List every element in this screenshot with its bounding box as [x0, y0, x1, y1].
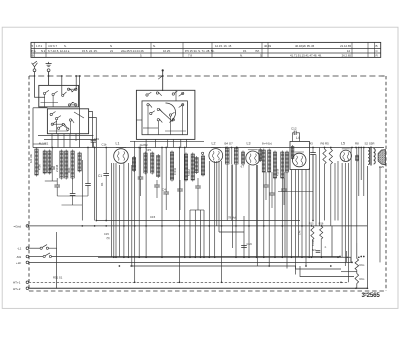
svg-text:HT+2: HT+2 — [13, 287, 21, 291]
wire C19 branch — [219, 231, 244, 233]
wire earth down — [48, 72, 50, 86]
wire speaker drop — [366, 166, 368, 288]
svg-text:B: B — [376, 44, 378, 48]
A2 slant tick — [158, 75, 163, 79]
svg-text:L5: L5 — [341, 141, 345, 145]
svg-text:R8: R8 — [355, 141, 359, 145]
bus step 1 — [296, 266, 342, 269]
wire Rm2 down — [356, 284, 358, 289]
capacitor C18 — [91, 140, 97, 142]
resistor R20 — [268, 149, 271, 174]
svg-text:21016: 21016 — [55, 164, 59, 172]
capacitor C16 — [281, 189, 287, 191]
wire S1b internal 5 — [74, 112, 84, 118]
switch contact S1a — [72, 88, 77, 92]
bus wire y264 — [130, 265, 296, 267]
wire antenna down — [35, 72, 46, 98]
wire S1a internal 3 — [44, 95, 46, 107]
switch contact S2 — [169, 119, 174, 123]
capacitor C10 — [177, 189, 183, 191]
capacitor C9 — [163, 192, 169, 194]
resistor Rm1 — [355, 259, 359, 271]
svg-text:R1: R1 — [100, 182, 104, 186]
wire cluster A bottom link 1 — [45, 180, 57, 182]
resistor R18b — [259, 148, 262, 162]
wire -L1 — [29, 247, 40, 249]
wire S1b internal 2 — [56, 120, 58, 134]
earth terminal — [47, 69, 50, 72]
switch box S2 outer — [136, 90, 195, 139]
wire R16 drop — [320, 239, 322, 257]
wire left drop — [32, 108, 34, 148]
wire C11 leads — [197, 178, 199, 210]
svg-text:R16: R16 — [319, 221, 324, 225]
wire C3 leads — [56, 178, 58, 196]
switch contact S2 — [157, 108, 162, 112]
wire Rm link — [356, 270, 358, 274]
svg-text:C15: C15 — [104, 232, 109, 236]
switch contact S2 — [179, 104, 184, 108]
coil S3 — [35, 148, 38, 177]
resistor R6 — [323, 149, 326, 164]
coil S5 — [157, 154, 160, 178]
svg-text:N 2: N 2 — [41, 49, 46, 53]
terminal HT+1 — [26, 281, 29, 284]
svg-text:16.25.: 16.25. — [163, 49, 171, 53]
switch contact S1b — [50, 112, 55, 116]
svg-text:6.7: 6.7 — [241, 165, 245, 169]
terminal -M1 — [26, 255, 29, 258]
capacitor C6 — [85, 184, 91, 186]
terminal -L1 — [26, 247, 29, 250]
switch contact S2 — [157, 119, 162, 123]
wire -L1 to node — [49, 248, 57, 288]
capacitor C2 — [49, 167, 55, 169]
svg-text:6.7-10.5, 12-14 a: 6.7-10.5, 12-14 a — [48, 49, 70, 53]
bus wire HT+1 — [29, 281, 349, 283]
svg-text:4 R 6.7: 4 R 6.7 — [48, 44, 57, 48]
svg-text:L1: L1 — [116, 142, 120, 146]
switch contact S1a — [67, 88, 72, 92]
wire S1b right link — [89, 112, 93, 148]
switch S2 rotor arc — [166, 103, 176, 120]
wire S2 internal 7 — [165, 130, 186, 132]
dashed border frame right — [385, 76, 387, 291]
svg-text:=Grid: =Grid — [14, 225, 22, 229]
bus wire y220 — [96, 220, 300, 222]
title table row line 1 — [31, 48, 381, 50]
switch contact S1a — [72, 102, 77, 106]
resistor R8 — [144, 152, 147, 175]
svg-text:+LF: +LF — [16, 261, 21, 265]
wire A2 stub — [162, 70, 164, 91]
resistor inside L4 box — [291, 145, 294, 160]
wire S1b leg 2 — [57, 134, 59, 148]
wire C1 leads — [105, 148, 107, 221]
switch contact S1a — [43, 90, 49, 94]
wire C17 leads — [312, 148, 314, 221]
transformer T1 core — [370, 147, 371, 166]
svg-text:C12: C12 — [291, 126, 297, 130]
svg-text:1 P.1: 1 P.1 — [36, 44, 43, 48]
wire S1a feed 1 — [61, 76, 63, 94]
wire cluster C mid — [231, 148, 233, 165]
svg-text:C19: C19 — [247, 242, 253, 246]
wire bus 346 step — [346, 251, 348, 262]
antenna terminal — [33, 69, 36, 72]
svg-text:R6 R5: R6 R5 — [321, 141, 330, 145]
wire drops group 6 (extra) — [217, 148, 380, 267]
svg-text:5.: 5. — [260, 54, 263, 58]
wire C9 leads — [165, 148, 167, 211]
switch contact S2 — [146, 92, 151, 96]
wire under S2 — [130, 140, 204, 142]
resistor R22 — [285, 151, 288, 174]
svg-text:L2: L2 — [212, 141, 216, 145]
switch contact S2 — [179, 92, 184, 96]
svg-text:-M1: -M1 — [16, 255, 21, 259]
svg-text:4u5 10A: 4u5 10A — [30, 154, 33, 163]
capacitor C7 — [138, 177, 144, 179]
wire S1b leg 4 — [69, 134, 71, 148]
wire S1a internal 4 — [52, 96, 54, 107]
resistor R1 — [43, 150, 46, 175]
dashed border frame bottom — [29, 290, 386, 292]
switch box S2 inner — [142, 101, 187, 135]
switch S3a — [40, 245, 48, 250]
coil L3 — [246, 150, 260, 165]
svg-text:7 8: 7 8 — [188, 54, 192, 58]
title table frame — [31, 42, 381, 57]
switch contact S1b — [51, 121, 56, 125]
wire drops group 1 (below L1) — [112, 141, 135, 282]
svg-text:Br4: Br4 — [312, 249, 316, 252]
wire R6 top — [324, 148, 326, 150]
resistor R13 — [201, 155, 204, 177]
svg-text:8+4 6(r): 8+4 6(r) — [262, 141, 272, 145]
capacitor C1 — [103, 174, 109, 176]
wire under S1b 1 — [38, 135, 93, 137]
svg-text:4.: 4. — [325, 246, 327, 249]
resistor R9 — [151, 152, 154, 175]
wire C5 leads — [72, 178, 74, 205]
wire AVC line — [278, 191, 313, 193]
switch contact S1a — [68, 102, 73, 106]
wire cluster A bottom link 3 — [62, 204, 83, 206]
title table text row2 — [31, 49, 378, 53]
wire under S1b 2 — [44, 139, 96, 141]
svg-text:B: B — [32, 54, 34, 58]
wire S2 internal 8 — [136, 119, 142, 121]
bus wire -M1 long — [52, 256, 341, 258]
wire into S1b — [33, 107, 47, 109]
wire S2 internal 3 — [170, 117, 172, 135]
title table row line 2 — [31, 52, 381, 54]
wire cluster A drop 1 — [81, 160, 83, 221]
svg-text:C1: C1 — [98, 174, 102, 178]
svg-text:4700: 4700 — [38, 164, 42, 170]
wire C10 leads — [179, 180, 181, 210]
wire bus link 332 — [331, 226, 333, 257]
title table column lines — [34, 42, 374, 57]
terminal chassis — [26, 225, 29, 228]
wire main top rail — [33, 147, 384, 149]
resistor R18 — [242, 151, 245, 166]
svg-text:C19: C19 — [94, 137, 99, 141]
wire step to Rm1 — [350, 257, 352, 262]
wire S2 internal 5 — [175, 90, 177, 101]
resistor R14 — [225, 147, 229, 166]
wire cluster A bottom link 2 — [57, 195, 88, 197]
svg-text:S.: S. — [64, 44, 67, 48]
resistor R19 — [262, 149, 265, 174]
switch contact S1a — [52, 91, 58, 95]
terminal HT+2 — [26, 287, 29, 290]
wire S1b internal 3 — [70, 121, 72, 134]
svg-text:4L1/S1: 4L1/S1 — [39, 142, 49, 146]
svg-text:N.: N. — [240, 54, 243, 58]
svg-text:C4: C4 — [162, 188, 166, 192]
resistor R4 — [78, 152, 81, 173]
wire S1b leg 5 — [75, 134, 77, 141]
earth symbol — [46, 62, 52, 67]
transformer T1 primary — [368, 148, 370, 165]
wire C16 leads — [283, 178, 285, 205]
coil S7 — [273, 151, 276, 180]
resistor R8 — [356, 154, 359, 162]
terminal +LF — [26, 261, 29, 264]
svg-text:51112: 51112 — [187, 169, 191, 176]
node A2 dot — [162, 69, 164, 71]
coil L2 — [209, 147, 223, 162]
wire S1b leg 3 — [63, 134, 65, 148]
coil S4 — [60, 150, 63, 180]
switch contact S1b — [69, 119, 74, 123]
svg-text:78 Volt: 78 Volt — [228, 216, 237, 220]
svg-text:C15: C15 — [150, 215, 156, 219]
switch contact S1b — [62, 123, 67, 127]
resistor R15 — [311, 226, 314, 240]
svg-text:7M.: 7M. — [255, 49, 260, 53]
bus step 2 — [300, 266, 354, 277]
svg-text:12.15. 16. 15: 12.15. 16. 15 — [215, 44, 232, 48]
wire S1a feed 2 — [75, 76, 77, 88]
svg-text:22a 25.5.14 24 26.: 22a 25.5.14 24 26. — [121, 49, 145, 53]
wire C12 right — [296, 133, 299, 142]
wire Rm feed — [356, 243, 358, 259]
resistor R16 — [320, 226, 323, 239]
wire drops group 5 (right) — [313, 148, 364, 283]
resistor R1b — [48, 150, 51, 175]
svg-text:S2 S5R: S2 S5R — [365, 141, 375, 145]
wire C13 leads — [265, 172, 267, 200]
wire C8 leads — [156, 180, 158, 198]
svg-text:4L2/S2: 4L2/S2 — [140, 143, 149, 147]
wire cluster B bottom link — [190, 209, 204, 211]
svg-text:C1b: C1b — [102, 143, 107, 147]
svg-text:HT+1: HT+1 — [13, 281, 21, 285]
svg-text:N: N — [110, 44, 112, 48]
wire S2 internal 1 — [147, 106, 149, 135]
svg-text:21.12.65: 21.12.65 — [340, 44, 351, 48]
resistor R13b — [195, 156, 198, 174]
capacitor C19 — [241, 246, 247, 248]
svg-text:15.5. 24. 25.: 15.5. 24. 25. — [82, 49, 98, 53]
resistor R7 — [132, 156, 135, 172]
coil L5 — [340, 149, 351, 162]
wire drops group 3 (below L2/L3) — [209, 161, 256, 282]
wire C6 leads — [87, 148, 89, 197]
resistor R21 — [281, 151, 284, 180]
switch box S1b — [47, 109, 88, 134]
title table text row3 — [32, 54, 379, 58]
transformer T1 secondary — [374, 149, 376, 165]
switch contact S2 — [156, 92, 161, 96]
svg-text:47011: 47011 — [173, 167, 177, 175]
antenna symbol — [32, 61, 38, 68]
resistor R3 — [71, 150, 74, 180]
svg-text:3-2565: 3-2565 — [362, 292, 381, 299]
svg-text:46.46(2b Pb.45: 46.46(2b Pb.45 — [295, 44, 315, 48]
svg-text:KP1: KP1 — [146, 148, 152, 152]
wire S1a internal 2 — [69, 104, 75, 106]
svg-text:15.: 15. — [243, 49, 247, 53]
wire C2 leads — [51, 148, 53, 182]
switch contact S1b — [57, 125, 62, 129]
svg-text:R51 S1: R51 S1 — [53, 275, 63, 279]
wire drops group 2 (below S2) — [139, 148, 204, 283]
svg-text:Rm: Rm — [360, 263, 365, 267]
wire S1b right drop — [89, 118, 97, 221]
resistor R5 — [329, 149, 332, 164]
wire link 271 — [341, 271, 357, 273]
resistor Rm2 — [355, 274, 359, 284]
switch contact S1b — [55, 116, 60, 120]
bus wire HT+2 — [29, 287, 368, 289]
capacitor C8 — [154, 185, 160, 187]
bus wire y259 — [98, 256, 351, 258]
wire S2 internal 2 — [157, 121, 159, 135]
wire R5 top — [330, 148, 332, 150]
wire drops group 4 (below cluster D / L4) — [264, 168, 309, 275]
capacitor C14 — [269, 193, 275, 195]
bus wire y226 (chassis) — [27, 225, 367, 227]
capacitor C3 — [54, 185, 60, 187]
svg-text:43: 43 — [310, 141, 314, 145]
wire cluster A top stub — [33, 143, 46, 145]
coil L4 box — [290, 142, 310, 170]
svg-text:R15: R15 — [309, 221, 314, 225]
switch box S1a — [39, 85, 79, 107]
wire S1b leg 1 — [51, 134, 53, 148]
strike mark on drawing number — [362, 292, 368, 294]
coil L1 — [114, 148, 129, 164]
resistor R2 — [65, 150, 68, 180]
title table text row1 — [32, 44, 378, 48]
contact before L2 — [202, 152, 204, 154]
switch contact S1a — [62, 92, 67, 97]
capacitor C12 — [294, 131, 296, 135]
svg-text:21: 21 — [110, 49, 114, 53]
svg-text:B4 G7: B4 G7 — [225, 141, 234, 145]
capacitor C11 — [195, 186, 201, 188]
svg-text:41019: 41019 — [276, 168, 280, 176]
wire cluster C legs — [227, 165, 236, 221]
switch contact S2 — [150, 111, 155, 115]
wire C18 down — [92, 142, 94, 147]
wire S2 legs — [146, 139, 186, 147]
svg-text:C4n: C4n — [299, 230, 302, 235]
wire S2 internal 4 — [182, 106, 184, 135]
resistor R12 — [191, 153, 194, 182]
svg-text:P.5 15 34. S. 7n. 28. 5b.: P.5 15 34. S. 7n. 28. 5b. — [185, 49, 215, 53]
svg-text:40.49: 40.49 — [264, 44, 271, 48]
svg-text:(5): (5) — [107, 236, 110, 240]
wire cluster A drop 2 — [94, 148, 96, 221]
resistor R17 — [234, 147, 238, 166]
dashed border frame left — [28, 76, 30, 291]
svg-text:L3: L3 — [247, 141, 251, 145]
svg-text:P.S.: P.S. — [31, 49, 36, 53]
svg-text:26.2.65: 26.2.65 — [342, 54, 352, 58]
wire C12 left — [293, 133, 295, 142]
switch S3b — [43, 253, 51, 258]
switch contact S2 — [172, 91, 177, 95]
wire C7 leads — [140, 148, 142, 197]
wire S2 internal 6 — [143, 127, 158, 129]
svg-text:-L1: -L1 — [17, 247, 22, 251]
resistor R10 — [170, 151, 173, 182]
switch contact S2 — [169, 112, 174, 116]
svg-text:Rm: Rm — [360, 277, 365, 281]
capacitor C5 — [70, 194, 76, 196]
svg-text:N.: N. — [153, 44, 156, 48]
svg-text:4911: 4911 — [67, 167, 71, 173]
wire -M1 — [29, 256, 43, 258]
bus wire +LF long — [29, 261, 352, 263]
wire S1b internal — [52, 123, 63, 125]
capacitor C13 — [263, 185, 269, 187]
wire S1b internal 4 — [49, 130, 68, 132]
speaker LS1 — [378, 150, 386, 166]
svg-text:41.71.91.15.41.47.48. 49.: 41.71.91.15.41.47.48. 49. — [290, 54, 322, 58]
coil L4 — [292, 152, 306, 167]
wire S1a internal 5 — [41, 102, 59, 104]
switch contact S2 — [147, 104, 152, 108]
wire node drop 56 — [56, 232, 58, 248]
svg-text:4/10A: 4/10A — [312, 239, 315, 246]
capacitor C20 — [316, 251, 321, 253]
dashed border frame top — [29, 75, 386, 77]
wire R15 drop — [311, 240, 313, 257]
wire long drop right of S1a — [79, 76, 81, 148]
capacitor C17 — [310, 153, 316, 155]
resistor R11 — [184, 153, 187, 182]
switch S2 rotor line — [160, 110, 173, 122]
svg-text:5.: 5. — [140, 54, 143, 58]
switch contact S1b — [64, 126, 69, 130]
wire C14 leads — [271, 172, 273, 208]
wire S1a internal 1 — [69, 88, 76, 90]
svg-text:14: 14 — [347, 49, 351, 53]
